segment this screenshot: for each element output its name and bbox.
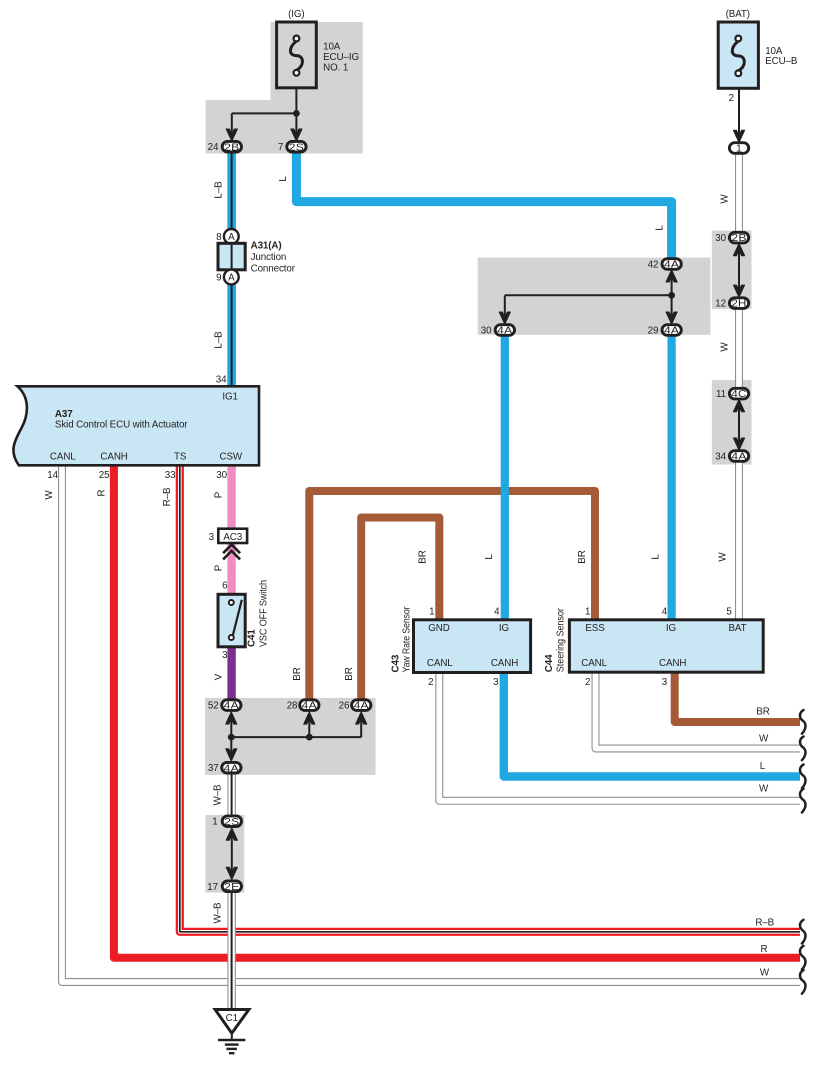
svg-text:1: 1 bbox=[212, 817, 217, 828]
svg-text:28: 28 bbox=[287, 701, 298, 712]
arrow into node 30 4A bbox=[499, 312, 510, 324]
svg-text:R–B: R–B bbox=[162, 487, 173, 506]
arrow into node 37 4A bbox=[226, 749, 237, 761]
svg-text:4: 4 bbox=[494, 607, 500, 618]
break symbol R wire bbox=[800, 946, 806, 970]
gray background panel connectors 2S/2E bbox=[206, 815, 245, 893]
svg-text:9: 9 bbox=[216, 272, 221, 283]
svg-text:4: 4 bbox=[662, 607, 668, 618]
wire P from connector AC3 to VSC OFF switch C41 pin 6 bbox=[227, 543, 235, 596]
wire L from node 30 4A to C43 pin 4 IG bbox=[501, 336, 509, 621]
svg-text:W: W bbox=[720, 342, 731, 352]
arrow into connector 1 right bbox=[733, 130, 744, 142]
link wire between connectors 4C and 4A bbox=[738, 401, 740, 448]
svg-text:CANL: CANL bbox=[581, 658, 607, 669]
svg-text:30: 30 bbox=[715, 233, 726, 244]
break symbol L wire bbox=[800, 765, 806, 789]
svg-text:1: 1 bbox=[585, 607, 590, 618]
wire L from connector 2S to node 42 4A bbox=[296, 153, 671, 259]
connector oval 1 right bbox=[729, 143, 748, 155]
svg-text:W: W bbox=[760, 968, 770, 979]
break symbol W wire bottom bbox=[800, 970, 806, 994]
wire BR from C44 pin 3 CANH to right edge bbox=[675, 673, 800, 723]
svg-text:BR: BR bbox=[344, 667, 355, 680]
junction node at 42/29 bbox=[668, 292, 675, 299]
svg-text:4A: 4A bbox=[664, 260, 679, 271]
wire P from A37 pin 30 CSW to connector AC3 bbox=[227, 466, 235, 530]
svg-text:NO. 1: NO. 1 bbox=[323, 62, 348, 73]
svg-text:C1: C1 bbox=[226, 1013, 238, 1024]
connector oval 26 4A bbox=[352, 700, 371, 712]
connector oval 2B right bbox=[729, 232, 748, 244]
svg-text:L: L bbox=[654, 225, 665, 231]
connector oval 4C right bbox=[729, 388, 748, 400]
svg-text:(IG): (IG) bbox=[288, 9, 304, 20]
break symbol BR wire bbox=[800, 710, 806, 734]
junction node below fuse ECU-IG bbox=[293, 110, 300, 117]
ECU box A37 Skid Control ECU with Actuator bbox=[13, 386, 259, 465]
svg-text:R: R bbox=[97, 489, 108, 496]
svg-text:P: P bbox=[214, 564, 225, 571]
ground C1 bbox=[215, 1010, 249, 1034]
svg-text:C44: C44 bbox=[544, 654, 555, 672]
svg-text:C43: C43 bbox=[391, 654, 402, 672]
svg-text:A31(A): A31(A) bbox=[251, 241, 282, 252]
svg-text:W–B: W–B bbox=[213, 784, 224, 805]
arrow into connector 2B top-left bbox=[226, 129, 237, 141]
connector oval 4A right bbox=[729, 451, 748, 463]
svg-text:24: 24 bbox=[208, 142, 219, 153]
svg-text:2B: 2B bbox=[731, 233, 746, 244]
svg-text:R–B: R–B bbox=[755, 918, 774, 929]
junction connector A31 box bbox=[218, 243, 245, 269]
connector oval 2E (17) bbox=[222, 881, 241, 893]
wire W-B from connector 2E (17) to ground C1 bbox=[227, 892, 236, 1010]
svg-text:30: 30 bbox=[216, 470, 227, 481]
wire W from C43 pin 2 CANL to right edge bbox=[439, 673, 800, 801]
svg-text:34: 34 bbox=[715, 452, 726, 463]
svg-text:14: 14 bbox=[47, 470, 58, 481]
arrow into node 29 4A bbox=[666, 312, 677, 324]
link wire between connectors 2B and 2H bbox=[738, 245, 740, 295]
connector oval 28 4A bbox=[300, 700, 319, 712]
svg-text:IG1: IG1 bbox=[222, 392, 238, 403]
connector oval 29 4A bbox=[662, 325, 681, 337]
arrow into connector 2S top-left bbox=[291, 129, 302, 141]
svg-text:CANH: CANH bbox=[491, 658, 518, 669]
svg-text:CANH: CANH bbox=[659, 658, 686, 669]
svg-text:4A: 4A bbox=[731, 452, 746, 463]
wire W from connector 4A to C44 pin 5 BAT bbox=[735, 463, 743, 622]
svg-text:BR: BR bbox=[756, 707, 769, 718]
arrow into node 28 4A bbox=[304, 712, 315, 724]
svg-text:L: L bbox=[651, 554, 662, 560]
svg-text:L–B: L–B bbox=[214, 181, 225, 199]
svg-text:2: 2 bbox=[428, 677, 433, 688]
svg-text:(BAT): (BAT) bbox=[726, 9, 750, 20]
svg-text:CANL: CANL bbox=[427, 658, 453, 669]
wire W from connector 2H to connector 4C right column bbox=[735, 310, 743, 388]
svg-text:Connector: Connector bbox=[251, 264, 296, 275]
arrow into connector 2B right bbox=[733, 244, 744, 256]
svg-text:BR: BR bbox=[418, 550, 429, 563]
svg-text:L–B: L–B bbox=[214, 331, 225, 349]
svg-text:34: 34 bbox=[216, 375, 227, 386]
svg-text:ESS: ESS bbox=[585, 623, 605, 634]
svg-text:4A: 4A bbox=[224, 701, 239, 712]
svg-text:TS: TS bbox=[174, 451, 187, 462]
svg-text:2B: 2B bbox=[224, 142, 239, 153]
svg-text:A: A bbox=[228, 232, 235, 243]
svg-text:A37: A37 bbox=[55, 409, 73, 420]
arrow into connector 4A right bbox=[733, 438, 744, 450]
fuse 10A ECU-IG NO.1 bbox=[277, 22, 317, 88]
arrow into node 42 4A bbox=[666, 270, 677, 282]
gray background panel node 4A junctions (52/28/26/37) bbox=[205, 698, 376, 775]
svg-text:ECU–B: ECU–B bbox=[765, 56, 798, 67]
svg-text:BAT: BAT bbox=[728, 623, 746, 634]
wire BR from node 28 4A to C44 pin 1 ESS bbox=[309, 491, 595, 699]
chevron marker below AC3 bbox=[223, 545, 240, 560]
svg-text:26: 26 bbox=[339, 701, 350, 712]
svg-text:2H: 2H bbox=[731, 299, 746, 310]
svg-text:W: W bbox=[720, 194, 731, 204]
gray background panel connectors 2B/2H right column bbox=[712, 231, 752, 310]
svg-text:4C: 4C bbox=[731, 389, 747, 400]
connector oval 2S (1) bbox=[222, 816, 241, 828]
svg-text:4A: 4A bbox=[497, 326, 512, 337]
svg-text:IG: IG bbox=[666, 623, 676, 634]
svg-text:8: 8 bbox=[216, 232, 222, 243]
svg-text:2: 2 bbox=[585, 677, 590, 688]
svg-text:11: 11 bbox=[716, 389, 726, 400]
connector oval 52 4A bbox=[222, 700, 241, 712]
wire L from C43 pin 3 CANH to right edge bbox=[504, 673, 800, 777]
sensor box C43 Yaw Rate Sensor bbox=[414, 620, 531, 673]
svg-text:2E: 2E bbox=[224, 882, 239, 893]
svg-text:29: 29 bbox=[648, 326, 659, 337]
gray background panel top-left (IG fuse block) bbox=[206, 22, 363, 154]
svg-text:BR: BR bbox=[577, 550, 588, 563]
svg-text:1: 1 bbox=[429, 607, 434, 618]
svg-text:W–B: W–B bbox=[213, 902, 224, 923]
wire W-B from node 37 4A to connector 2S (1) bbox=[227, 774, 236, 816]
svg-text:GND: GND bbox=[428, 623, 449, 634]
wire BR from node 26 4A to C43 pin 1 GND bbox=[361, 518, 439, 700]
svg-text:12: 12 bbox=[715, 299, 726, 310]
svg-text:10A: 10A bbox=[765, 46, 783, 57]
svg-text:3: 3 bbox=[222, 650, 228, 661]
connector AC3 bbox=[218, 529, 247, 543]
arrow into connector 4C right bbox=[733, 400, 744, 412]
gray background panel connectors 4C/4A right column bbox=[712, 380, 752, 464]
fuse 10A ECU-B bbox=[718, 22, 758, 88]
svg-text:Steering Sensor: Steering Sensor bbox=[556, 607, 567, 672]
svg-text:W: W bbox=[759, 734, 769, 745]
break symbol W wire (C43 CANL) bbox=[800, 789, 806, 813]
svg-text:4A: 4A bbox=[224, 763, 239, 774]
svg-text:L: L bbox=[760, 761, 766, 772]
junction connector A31 pin circle A (9) bbox=[224, 270, 239, 285]
svg-text:A: A bbox=[228, 272, 235, 283]
svg-text:5: 5 bbox=[726, 607, 732, 618]
wire R-B from A37 pin 33 TS to right edge bbox=[180, 466, 800, 932]
connector oval 30 4A bbox=[495, 325, 514, 337]
svg-text:7: 7 bbox=[278, 142, 283, 153]
svg-text:10A: 10A bbox=[323, 42, 341, 53]
gray background panel node 4A junctions (42/30/29) bbox=[478, 258, 711, 335]
wire L-B from connector 2B to junction connector A31 pin 8 bbox=[227, 153, 236, 230]
svg-text:L: L bbox=[484, 554, 495, 560]
wire V from C41 pin 3 to node 52 4A bbox=[227, 647, 235, 700]
svg-text:33: 33 bbox=[165, 470, 176, 481]
svg-text:P: P bbox=[214, 491, 225, 498]
connector oval 2S top-left bbox=[287, 141, 306, 153]
svg-text:3: 3 bbox=[662, 677, 668, 688]
svg-text:W: W bbox=[759, 784, 769, 795]
svg-text:CANL: CANL bbox=[50, 451, 76, 462]
svg-text:CANH: CANH bbox=[100, 451, 127, 462]
svg-text:BR: BR bbox=[292, 667, 303, 680]
wire L-B from A31 pin 9 to A37 pin 34 IG1 bbox=[227, 284, 236, 387]
junction connector A31 pin circle A (8) bbox=[224, 229, 239, 244]
svg-text:Skid Control ECU with Actuator: Skid Control ECU with Actuator bbox=[55, 420, 188, 431]
link wire between connectors 2S and 2E bbox=[231, 829, 233, 878]
svg-text:30: 30 bbox=[481, 326, 492, 337]
connector oval 37 4A bbox=[222, 762, 241, 774]
svg-text:AC3: AC3 bbox=[223, 532, 242, 543]
connector oval 2H right bbox=[729, 298, 748, 310]
svg-text:R: R bbox=[761, 944, 768, 955]
svg-text:Junction: Junction bbox=[251, 252, 287, 263]
svg-text:2S: 2S bbox=[289, 142, 304, 153]
svg-text:42: 42 bbox=[648, 260, 659, 271]
svg-text:25: 25 bbox=[99, 470, 110, 481]
wire W from A37 pin 14 CANL to right edge bbox=[62, 466, 800, 983]
svg-text:L: L bbox=[278, 176, 289, 182]
link wire between nodes 42 / 30 / 29 4A bbox=[671, 271, 673, 322]
connector oval 42 4A bbox=[662, 259, 681, 271]
wire from fuse ECU-B to connector 1 bbox=[738, 88, 740, 139]
connector oval 2B top-left bbox=[222, 141, 241, 153]
break symbol R-B wire bbox=[800, 920, 806, 944]
svg-text:IG: IG bbox=[499, 623, 509, 634]
arrow into node 26 4A bbox=[356, 712, 367, 724]
link wire between nodes 52 / 28 / 26 / 37 4A bbox=[230, 713, 232, 737]
wire L from node 29 4A to C44 pin 4 IG bbox=[667, 336, 675, 621]
wire W from connector 1 to connector 2B right column bbox=[735, 154, 743, 232]
wire R from A37 pin 25 CANH to right edge bbox=[114, 466, 800, 958]
svg-text:52: 52 bbox=[208, 701, 219, 712]
svg-text:4A: 4A bbox=[354, 701, 369, 712]
svg-text:17: 17 bbox=[207, 882, 218, 893]
svg-text:C41: C41 bbox=[247, 629, 258, 647]
svg-text:W: W bbox=[44, 490, 55, 500]
svg-text:W: W bbox=[718, 552, 729, 562]
arrow into connector 2E (17) bbox=[226, 867, 237, 879]
svg-text:3: 3 bbox=[493, 677, 499, 688]
junction nodes on 4A link bbox=[228, 734, 235, 741]
sensor box C44 Steering Sensor bbox=[569, 620, 763, 672]
svg-text:Yaw Rate Sensor: Yaw Rate Sensor bbox=[402, 606, 413, 673]
svg-text:V: V bbox=[214, 673, 225, 680]
svg-text:ECU–IG: ECU–IG bbox=[323, 52, 359, 63]
switch C41 VSC OFF Switch bbox=[218, 594, 245, 647]
svg-text:VSC OFF Switch: VSC OFF Switch bbox=[259, 580, 270, 647]
svg-text:CSW: CSW bbox=[220, 451, 243, 462]
svg-text:1: 1 bbox=[736, 144, 742, 155]
svg-text:6: 6 bbox=[222, 581, 228, 592]
svg-text:37: 37 bbox=[208, 763, 219, 774]
svg-text:2S: 2S bbox=[224, 817, 239, 828]
arrow into connector 2H right bbox=[733, 285, 744, 297]
svg-text:2: 2 bbox=[729, 93, 734, 104]
break symbol W wire (C44 CANL) bbox=[800, 737, 806, 761]
svg-text:4A: 4A bbox=[302, 701, 317, 712]
arrow into connector 2S (1) bbox=[226, 828, 237, 840]
wire W from C44 pin 2 CANL to right edge bbox=[596, 673, 801, 749]
arrow into node 52 4A bbox=[226, 712, 237, 724]
svg-text:4A: 4A bbox=[664, 326, 679, 337]
wire from fuse ECU-IG to connectors 2B and 2S bbox=[295, 88, 297, 137]
svg-text:3: 3 bbox=[209, 532, 215, 543]
